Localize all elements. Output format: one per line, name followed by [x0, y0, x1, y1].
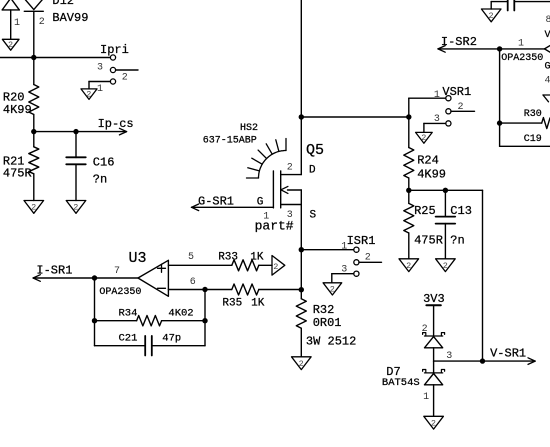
- resistor R20: [29, 85, 39, 115]
- svg-text:3W 2512: 3W 2512: [306, 334, 356, 348]
- ground (below D12.A): [2, 39, 19, 50]
- connector Ipri pin 3: [110, 55, 115, 60]
- svg-text:D12: D12: [52, 0, 74, 8]
- junction (I-SR2 / R30 rail): [497, 46, 502, 51]
- connector VSR1 pin 1: [446, 96, 451, 101]
- wire (D7 junction): [433, 348, 435, 373]
- junction (feedback tap): [92, 275, 97, 280]
- wire (R20 to Ip-cs node): [33, 115, 35, 132]
- junction (R24/R25 node): [406, 188, 411, 193]
- resistor R24: [404, 148, 414, 179]
- capacitor C13: [436, 216, 456, 218]
- wire (Ipri pin 2 stub): [116, 69, 138, 71]
- wire (node to R25): [408, 190, 410, 203]
- svg-text:C16: C16: [93, 156, 115, 170]
- svg-text:0R01: 0R01: [313, 316, 342, 330]
- wire (ISR1 pin 3 to ground): [332, 273, 354, 275]
- wire (Q5 drain vertical): [300, 0, 302, 175]
- wire (drain bus to VSR1): [301, 116, 409, 118]
- ground (below R32): [292, 357, 312, 370]
- svg-text:R24: R24: [417, 153, 439, 167]
- svg-text:C19: C19: [524, 134, 542, 145]
- ground (below R21): [24, 201, 44, 214]
- svg-text:R25: R25: [414, 204, 436, 218]
- ground (right edge, clipped): [543, 94, 550, 96]
- svg-text:3: 3: [434, 114, 440, 125]
- resistor R21: [29, 147, 39, 174]
- junction (C13 tap): [443, 188, 448, 193]
- svg-text:3: 3: [446, 351, 452, 362]
- junction (drain / bus): [299, 114, 304, 119]
- wire (decoupling cap left lead): [490, 2, 492, 9]
- junction (inverting node): [202, 287, 207, 292]
- wire (R25 to ground): [408, 233, 410, 259]
- wire (C16 to ground): [75, 164, 77, 200]
- wire (R30 lead): [500, 122, 542, 124]
- svg-text:475R: 475R: [3, 166, 32, 180]
- wire (right feedback rail): [204, 290, 206, 346]
- svg-text:U3: U3: [129, 250, 147, 267]
- arrow (V-SR1): [528, 358, 535, 361]
- svg-text:part#: part#: [255, 219, 294, 234]
- svg-text:R33: R33: [218, 251, 238, 263]
- wire I-SR1 (U3 output): [33, 277, 138, 279]
- wire (Q5 source vertical): [300, 190, 302, 299]
- wire (U3 + input): [168, 264, 231, 266]
- svg-text:3V3: 3V3: [423, 292, 445, 306]
- ground (below R25): [399, 259, 419, 272]
- svg-text:1: 1: [518, 38, 524, 49]
- ground (R33, sideways): [272, 255, 285, 275]
- ground (decoupling): [481, 9, 501, 22]
- svg-text:R34: R34: [119, 308, 138, 320]
- svg-text:6: 6: [190, 277, 196, 288]
- arrow (I-SR1): [33, 275, 40, 278]
- ground (below C13): [436, 259, 456, 272]
- junction (ISR1 tap): [299, 247, 304, 252]
- svg-text:BAT54S: BAT54S: [382, 377, 420, 389]
- svg-text:2: 2: [86, 89, 91, 99]
- transistor Q5 body arrow: [288, 189, 302, 191]
- wire (3V3 to D7 pin 2): [433, 305, 435, 336]
- junction (R30 tap): [497, 120, 502, 125]
- svg-text:4K02: 4K02: [168, 308, 193, 320]
- ground (VSR1 pin 3): [416, 132, 433, 143]
- svg-text:OPA2350: OPA2350: [501, 53, 543, 64]
- wire (left bus to Ipri pin 3): [0, 57, 110, 59]
- wire I-SR2: [438, 48, 545, 50]
- diode D7.B (schottky, lower): [425, 372, 443, 374]
- svg-text:Ip-cs: Ip-cs: [98, 117, 134, 131]
- svg-text:1: 1: [14, 18, 20, 29]
- svg-text:1: 1: [97, 84, 103, 95]
- svg-text:47p: 47p: [162, 333, 181, 345]
- junction (V-SR1 rail): [480, 358, 485, 363]
- resistor R35: [232, 284, 259, 295]
- svg-text:ISR1: ISR1: [347, 234, 376, 248]
- svg-text:2: 2: [365, 253, 371, 264]
- svg-text:Q5: Q5: [306, 142, 324, 159]
- svg-text:G: G: [545, 61, 550, 72]
- svg-text:R30: R30: [524, 109, 542, 120]
- svg-text:2: 2: [421, 133, 426, 143]
- svg-text:4K99: 4K99: [417, 167, 446, 181]
- wire (source to ISR1 pin 1): [301, 249, 354, 251]
- wire (C13 to ground): [444, 224, 446, 259]
- svg-text:R32: R32: [313, 303, 335, 317]
- connector ISR1 pin 1: [354, 247, 359, 252]
- wire (R33 to ground): [259, 264, 272, 266]
- svg-text:2: 2: [330, 284, 335, 294]
- ground (below D7): [424, 416, 444, 429]
- svg-text:C21: C21: [119, 333, 138, 345]
- capacitor C16: [66, 156, 86, 158]
- svg-text:2: 2: [458, 102, 464, 113]
- wire (left feedback rail): [94, 278, 96, 346]
- connector VSR1 pin 2: [446, 109, 451, 114]
- junction (R35/R32 node): [299, 287, 304, 292]
- wire (R34 right lead): [162, 320, 205, 322]
- wire (U3 - input): [168, 289, 231, 291]
- junction (R34 right): [202, 318, 207, 323]
- svg-text:2: 2: [489, 11, 494, 21]
- resistor R30 (clipped): [542, 118, 550, 129]
- svg-text:2: 2: [122, 72, 128, 83]
- svg-text:7: 7: [114, 266, 120, 277]
- diode D12.B (right half, cathode bar): [24, 0, 43, 10]
- wire (R34 left lead): [95, 320, 137, 322]
- svg-text:2: 2: [443, 261, 448, 271]
- svg-text:?n: ?n: [93, 172, 107, 186]
- wire (node to C13/V-SR1): [409, 189, 483, 191]
- resistor R25: [404, 203, 414, 233]
- wire (node to C16): [75, 132, 77, 158]
- capacitor (decoupling, clipped): [507, 0, 509, 11]
- resistor R34: [137, 316, 162, 326]
- connector Ipri pin 2: [110, 67, 115, 72]
- ground (below C16): [66, 201, 86, 214]
- svg-text:BAV99: BAV99: [52, 11, 88, 25]
- junction (C16 tap): [73, 129, 78, 134]
- svg-text:I-SR2: I-SR2: [441, 35, 477, 49]
- wire (D7 pin 1 to ground): [433, 385, 435, 417]
- svg-text:2: 2: [299, 359, 304, 369]
- svg-text:S: S: [310, 209, 317, 221]
- diode D12.A (left half, anode to ground): [2, 0, 19, 10]
- op-amp (partial, right edge): [545, 46, 550, 49]
- svg-text:?n: ?n: [450, 234, 464, 248]
- resistor R32: [296, 299, 306, 328]
- wire (R35 to shunt node): [259, 289, 302, 291]
- svg-text:8: 8: [546, 15, 550, 26]
- svg-text:2: 2: [8, 40, 13, 50]
- connector ISR1 pin 3: [354, 271, 359, 276]
- connector Ipri pin 1: [110, 79, 115, 84]
- wire V-SR1: [434, 360, 533, 362]
- wire (R32 to ground): [300, 328, 302, 357]
- svg-text:5: 5: [188, 252, 194, 263]
- svg-text:2: 2: [39, 17, 45, 28]
- ground (Ipri pin 1): [81, 89, 97, 99]
- wire (node to R21): [33, 132, 35, 147]
- junction (R20/R21/Ip-cs): [31, 129, 36, 134]
- svg-text:D: D: [309, 165, 316, 177]
- svg-text:1K: 1K: [250, 251, 264, 263]
- svg-text:3: 3: [341, 265, 347, 276]
- wire (VSR1 pin 2 stub): [451, 110, 475, 112]
- wire (Ipri pin 1 to ground): [89, 81, 110, 83]
- op-amp U3 body: [138, 260, 168, 296]
- arrow (Ip-cs): [119, 128, 126, 131]
- wire (R21 to ground): [33, 174, 35, 201]
- svg-text:1: 1: [423, 392, 429, 403]
- junction (R34 left): [92, 318, 97, 323]
- svg-text:2: 2: [287, 163, 293, 174]
- svg-text:1: 1: [434, 90, 440, 101]
- connector VSR1 pin 3: [446, 121, 451, 126]
- junction (D12 / bus): [31, 55, 36, 60]
- svg-text:1: 1: [341, 241, 347, 252]
- transistor Q5 gate bar: [272, 171, 274, 208]
- wire (decoupling cap right lead): [514, 1, 550, 3]
- svg-text:2: 2: [31, 203, 36, 213]
- svg-text:4K99: 4K99: [3, 103, 32, 117]
- svg-text:4: 4: [545, 76, 550, 87]
- wire (C21 right lead): [152, 345, 205, 347]
- svg-text:2: 2: [406, 261, 411, 271]
- wire (VSR1 pin 1 to drain bus): [409, 97, 446, 99]
- wire (VSR1 pin 3 to ground): [424, 122, 446, 124]
- diode D7.A (schottky, upper): [425, 335, 443, 337]
- junction (bus corner / R24): [406, 114, 411, 119]
- wire (node to C13): [444, 190, 446, 217]
- svg-text:OPA2350: OPA2350: [99, 287, 141, 298]
- svg-text:C13: C13: [450, 204, 472, 218]
- wire G-SR1 (gate lead): [192, 206, 274, 208]
- wire Ip-cs: [34, 131, 125, 133]
- svg-text:V-SR1: V-SR1: [490, 346, 526, 360]
- svg-text:HS2: HS2: [240, 123, 258, 134]
- svg-text:R35: R35: [222, 297, 242, 309]
- transistor Q5 source stub: [281, 204, 302, 206]
- transistor Q5 drain stub: [281, 174, 302, 176]
- transistor Q5 channel: [280, 171, 282, 208]
- wire (I-SR2 rail down): [499, 49, 501, 146]
- heatsink HS2 (arc with fins): [259, 151, 287, 179]
- arrow (G-SR1): [192, 204, 199, 207]
- svg-text:I-SR1: I-SR1: [36, 263, 72, 277]
- svg-text:V: V: [545, 30, 550, 41]
- wire (bus to R24): [408, 117, 410, 148]
- capacitor C21: [144, 336, 146, 356]
- wire (C21 left lead): [95, 345, 146, 347]
- svg-text:637-15ABP: 637-15ABP: [203, 135, 257, 146]
- svg-text:G-SR1: G-SR1: [198, 194, 234, 208]
- arrow (I-SR2): [438, 46, 445, 49]
- ground (ISR1 pin 3): [323, 283, 342, 295]
- svg-text:2: 2: [73, 203, 78, 213]
- wire (C19 rail): [500, 145, 550, 147]
- wire (ISR1 pin 2 stub): [359, 261, 382, 263]
- svg-text:2: 2: [273, 262, 278, 272]
- svg-text:3: 3: [97, 62, 103, 73]
- resistor R33: [232, 260, 259, 271]
- svg-text:2: 2: [431, 418, 436, 428]
- wire (R24 to node): [408, 178, 410, 190]
- svg-text:475R: 475R: [414, 234, 443, 248]
- svg-text:1K: 1K: [251, 297, 265, 309]
- connector ISR1 pin 2: [354, 260, 359, 265]
- wire (V-SR1 rail down): [482, 190, 484, 361]
